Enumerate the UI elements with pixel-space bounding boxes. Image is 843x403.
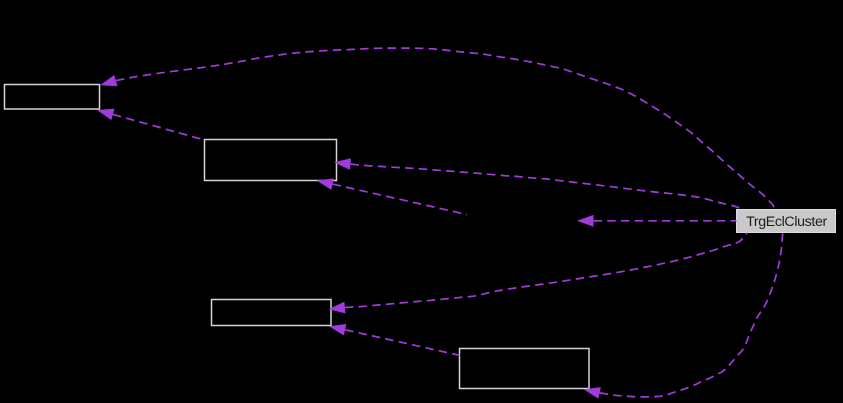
svg-text:TrgEclCluster: TrgEclCluster [746,214,827,230]
